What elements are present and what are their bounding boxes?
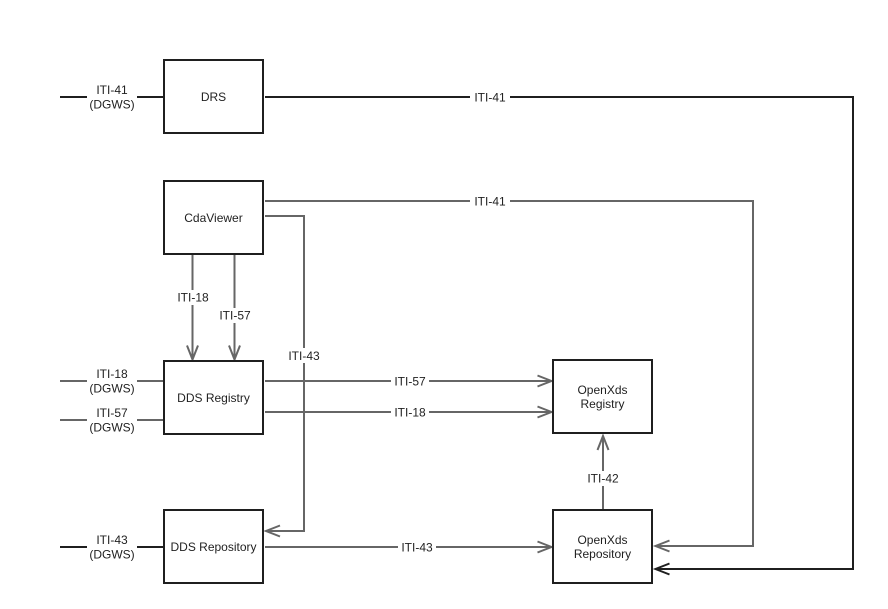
label ITI-18 (DGWS) left of DDS Registry	[89, 367, 134, 396]
wire ITI-18 (DGWS) stub into DDS Registry	[60, 367, 163, 396]
svg-text:ITI-41: ITI-41	[96, 83, 128, 97]
wire ITI-42 from OpenXds Repository up to OpenXds Registry	[584, 436, 622, 509]
svg-text:ITI-43: ITI-43	[288, 349, 320, 363]
box DRS	[164, 60, 263, 133]
svg-text:ITI-43: ITI-43	[401, 541, 433, 555]
wire ITI-57 (DGWS) stub into DDS Registry	[60, 406, 163, 435]
svg-text:OpenXds: OpenXds	[577, 383, 627, 397]
svg-text:ITI-41: ITI-41	[474, 91, 506, 105]
wire ITI-57 from CdaViewer down to DDS Registry	[216, 255, 254, 360]
label ITI-57 on CdaViewer-DDSRegistry arrow	[219, 309, 251, 323]
svg-text:(DGWS): (DGWS)	[89, 98, 134, 112]
label ITI-41 on DRS line	[474, 91, 506, 105]
svg-text:ITI-18: ITI-18	[96, 367, 128, 381]
wire ITI-43 from CdaViewer to DDS Repository right side	[265, 216, 323, 537]
svg-text:ITI-57: ITI-57	[96, 406, 128, 420]
wire ITI-18 from CdaViewer down to DDS Registry	[174, 255, 212, 360]
wire ITI-18 from DDS Registry to OpenXds Registry	[265, 405, 552, 420]
svg-text:(DGWS): (DGWS)	[89, 382, 134, 396]
label ITI-43 (DGWS) left of DDS Repository	[89, 533, 134, 562]
svg-text:(DGWS): (DGWS)	[89, 548, 134, 562]
label ITI-41 (DGWS) left of DRS	[89, 83, 134, 112]
box OpenXds Repository	[553, 510, 652, 583]
svg-text:OpenXds: OpenXds	[577, 533, 627, 547]
label ITI-18 on DDSRegistry-OpenXdsRegistry line	[394, 406, 426, 420]
svg-text:DDS Repository: DDS Repository	[170, 540, 256, 554]
box OpenXds Registry	[553, 360, 652, 433]
label ITI-57 (DGWS) left of DDS Registry	[89, 406, 134, 435]
svg-text:ITI-42: ITI-42	[587, 472, 619, 486]
wire ITI-41 from DRS to OpenXds Repository right side	[265, 90, 853, 575]
label ITI-18 on CdaViewer-DDSRegistry arrow	[177, 291, 209, 305]
wire ITI-41 (DGWS) stub into DRS	[60, 83, 163, 112]
wire ITI-41 from CdaViewer to OpenXds Repository right side	[265, 194, 753, 552]
label ITI-42 on OpenXds vertical line	[587, 472, 619, 486]
svg-text:ITI-57: ITI-57	[219, 309, 251, 323]
svg-text:(DGWS): (DGWS)	[89, 421, 134, 435]
label ITI-43 on CdaViewer-DDSRepository line	[288, 349, 320, 363]
wire ITI-57 from DDS Registry to OpenXds Registry	[265, 374, 552, 389]
label ITI-57 on DDSRegistry-OpenXdsRegistry line	[394, 375, 426, 389]
box DDS Registry	[164, 361, 263, 434]
box DDS Repository	[164, 510, 263, 583]
label ITI-41 on CdaViewer line	[474, 195, 506, 209]
box CdaViewer	[164, 181, 263, 254]
svg-text:ITI-18: ITI-18	[177, 291, 209, 305]
wire ITI-43 (DGWS) stub into DDS Repository	[60, 533, 163, 562]
svg-text:ITI-18: ITI-18	[394, 406, 426, 420]
wire ITI-43 from DDS Repository to OpenXds Repository	[265, 540, 552, 555]
svg-text:Registry: Registry	[580, 397, 624, 411]
label ITI-43 on DDSRepository-OpenXdsRepository line	[401, 541, 433, 555]
svg-text:DDS Registry: DDS Registry	[177, 391, 250, 405]
svg-text:ITI-41: ITI-41	[474, 195, 506, 209]
svg-text:CdaViewer: CdaViewer	[184, 211, 242, 225]
svg-text:ITI-57: ITI-57	[394, 375, 426, 389]
svg-text:DRS: DRS	[201, 90, 226, 104]
svg-text:Repository: Repository	[574, 547, 631, 561]
svg-text:ITI-43: ITI-43	[96, 533, 128, 547]
